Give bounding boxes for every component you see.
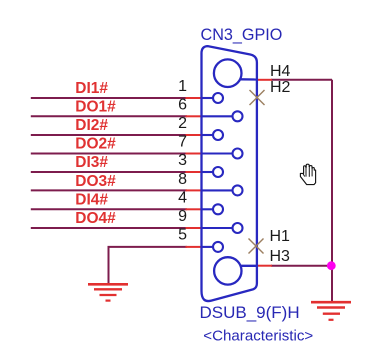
ground right bbox=[311, 302, 351, 320]
wire DI3# to pin 3 bbox=[31, 171, 187, 173]
wire H4 to right vertical bbox=[271, 79, 332, 81]
svg-text:H2: H2 bbox=[270, 79, 291, 96]
ground left bbox=[88, 284, 128, 300]
connector shell circle bottom (H1/H3) bbox=[214, 257, 241, 284]
pin H3 stub bbox=[257, 265, 272, 267]
wire DO4# to pin 9 bbox=[31, 227, 187, 229]
hand cursor bbox=[300, 164, 315, 184]
wire DI4# to pin 4 bbox=[31, 208, 187, 210]
pin 2 stub bbox=[186, 134, 201, 136]
svg-text:H3: H3 bbox=[270, 248, 291, 265]
pin 1 lead and circle bbox=[202, 97, 214, 99]
pin H4 stub bbox=[257, 79, 272, 81]
svg-text:DO1#: DO1# bbox=[75, 99, 116, 116]
wire right vertical to ground bbox=[331, 80, 333, 302]
svg-text:H1: H1 bbox=[270, 228, 291, 245]
connector shell circle top (H4/H2) bbox=[214, 59, 242, 87]
wire DO1# to pin 6 bbox=[31, 115, 187, 117]
pin 7 lead and circle bbox=[202, 152, 233, 154]
pin 4 stub bbox=[186, 208, 201, 210]
svg-text:2: 2 bbox=[178, 115, 187, 132]
pin 4 lead and circle bbox=[202, 208, 214, 210]
pin 2 lead and circle bbox=[202, 134, 214, 136]
svg-text:5: 5 bbox=[178, 227, 187, 244]
wire H3 to junction bbox=[271, 265, 332, 267]
pin 3 lead and circle bbox=[202, 171, 214, 173]
svg-text:DO2#: DO2# bbox=[75, 136, 116, 153]
wire DO3# to pin 8 bbox=[31, 189, 187, 191]
svg-text:DI3#: DI3# bbox=[75, 154, 108, 171]
wire DO2# to pin 7 bbox=[31, 153, 187, 155]
svg-text:DI2#: DI2# bbox=[75, 117, 108, 134]
pin 6 stub bbox=[186, 115, 201, 117]
svg-text:7: 7 bbox=[178, 134, 187, 151]
wire pin 5 to ground bbox=[109, 247, 188, 284]
svg-text:3: 3 bbox=[178, 152, 187, 169]
svg-text:<Characteristic>: <Characteristic> bbox=[203, 327, 313, 344]
junction dot bbox=[327, 261, 336, 270]
connector shell circle bottom lead bbox=[240, 265, 257, 267]
svg-text:DSUB_9(F)H: DSUB_9(F)H bbox=[200, 303, 300, 322]
pin 9 stub bbox=[186, 227, 201, 229]
svg-text:CN3_GPIO: CN3_GPIO bbox=[201, 26, 283, 44]
svg-text:8: 8 bbox=[178, 171, 187, 188]
connector shell circle top lead bbox=[240, 78, 257, 80]
svg-text:1: 1 bbox=[178, 78, 187, 95]
pin 5 lead and circle bbox=[202, 246, 214, 248]
connector CN3 DSUB_9(F)H body bbox=[202, 46, 257, 301]
svg-text:DI1#: DI1# bbox=[75, 80, 108, 97]
svg-text:9: 9 bbox=[178, 208, 187, 225]
no-ERC marker on pin H1 bbox=[249, 239, 264, 254]
pin 8 lead and circle bbox=[202, 189, 233, 191]
pin 3 stub bbox=[186, 171, 201, 173]
no-ERC marker on pin H2 bbox=[250, 90, 265, 105]
pin 7 stub bbox=[186, 153, 201, 155]
svg-text:H4: H4 bbox=[270, 63, 291, 80]
wire DI2# to pin 2 bbox=[31, 134, 187, 136]
svg-text:6: 6 bbox=[178, 97, 187, 114]
svg-text:4: 4 bbox=[178, 190, 187, 207]
pin 5 stub bbox=[186, 246, 201, 248]
svg-text:DI4#: DI4# bbox=[75, 192, 108, 209]
svg-text:DO3#: DO3# bbox=[75, 173, 116, 190]
pin 9 lead and circle bbox=[202, 227, 233, 229]
wire DI1# to pin 1 bbox=[31, 97, 187, 99]
svg-text:DO4#: DO4# bbox=[75, 210, 116, 227]
pin 8 stub bbox=[186, 189, 201, 191]
pin 6 lead and circle bbox=[202, 115, 233, 117]
pin 1 stub bbox=[186, 97, 201, 99]
